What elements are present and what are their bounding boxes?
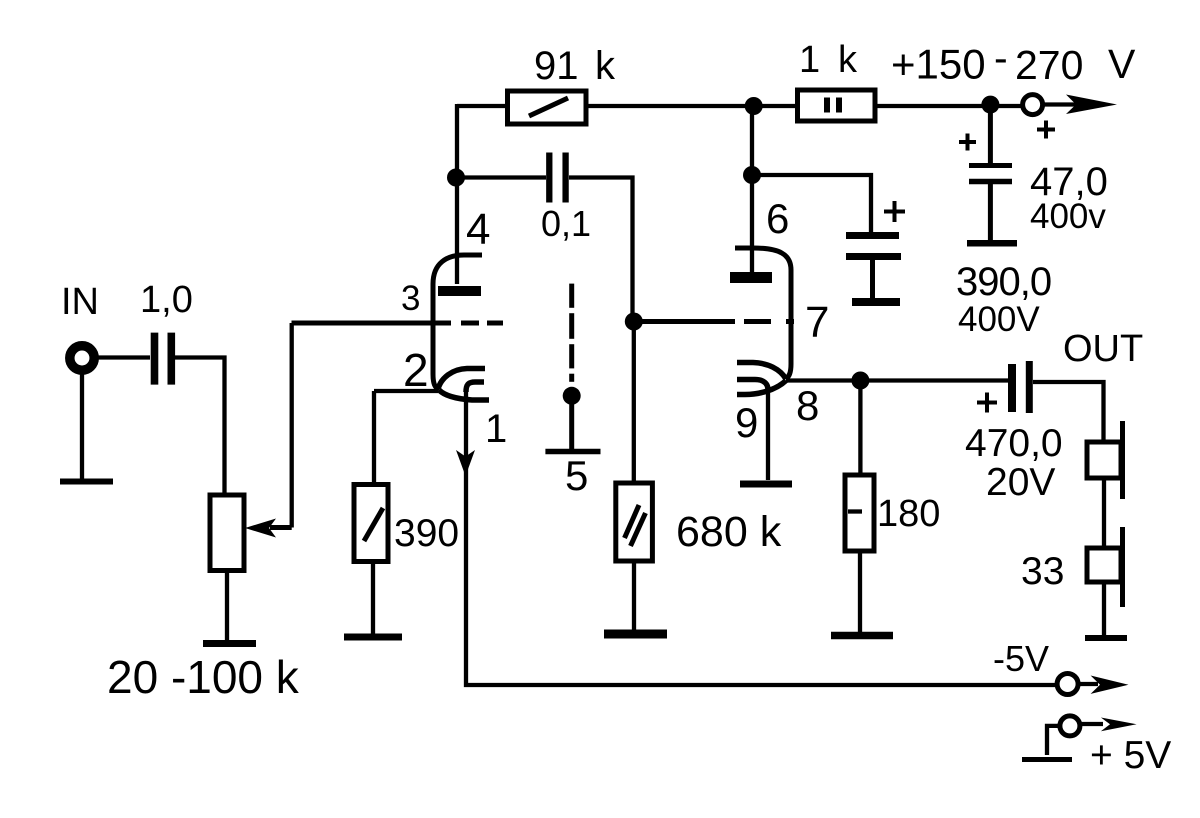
svg-text:390: 390 [394,512,459,555]
svg-text:OUT: OUT [1063,328,1143,370]
svg-text:1,0: 1,0 [140,279,193,321]
svg-text:3: 3 [401,279,420,318]
svg-text:390,0: 390,0 [956,260,1051,304]
svg-text:+ 5V: + 5V [1090,734,1171,777]
svg-text:IN: IN [61,281,99,323]
svg-text:0,1: 0,1 [541,203,591,244]
svg-text:33: 33 [1021,550,1064,593]
svg-text:400V: 400V [958,300,1040,339]
svg-text:V: V [1108,41,1136,87]
svg-text:20V: 20V [986,461,1055,504]
svg-text:680 k: 680 k [676,508,782,556]
svg-text:6: 6 [766,195,789,242]
svg-text:270: 270 [1015,42,1083,88]
svg-text:-5V: -5V [993,638,1049,679]
svg-text:20 -100 k: 20 -100 k [107,651,300,703]
svg-text:2: 2 [403,344,429,396]
svg-text:+150: +150 [891,41,986,88]
svg-text:400v: 400v [1030,197,1106,236]
svg-text:7: 7 [805,298,829,347]
svg-text:4: 4 [466,205,490,254]
svg-text:9: 9 [735,399,758,446]
svg-text:k: k [838,39,858,81]
svg-text:1: 1 [799,39,820,81]
svg-text:1: 1 [485,407,507,451]
svg-text:91: 91 [534,44,579,88]
svg-text:5: 5 [565,452,588,499]
svg-text:-: - [994,35,1008,81]
svg-text:8: 8 [796,382,819,429]
svg-text:k: k [595,44,616,88]
svg-text:180: 180 [877,493,940,535]
svg-text:470,0: 470,0 [965,422,1063,465]
